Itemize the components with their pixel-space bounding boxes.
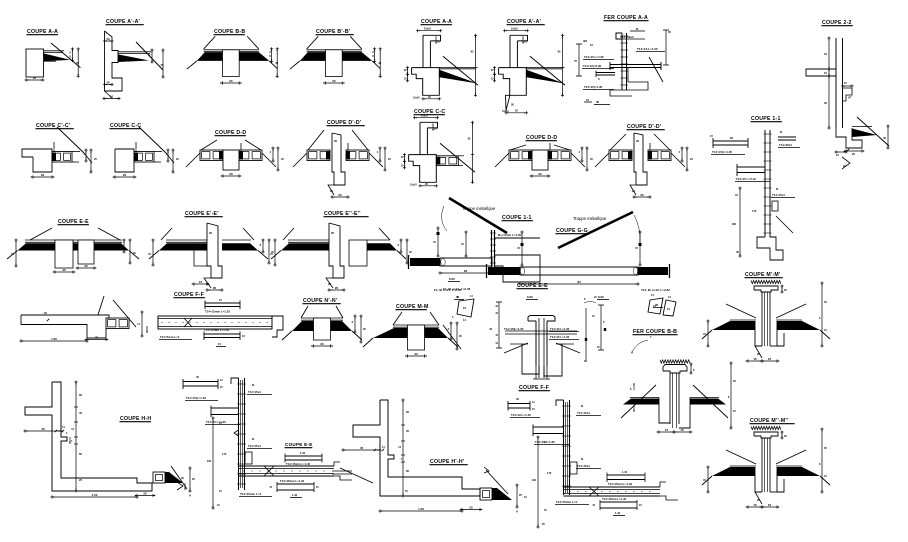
COUPE E'-E' title	[185, 211, 223, 217]
svg-text:R.: R.	[776, 187, 779, 191]
COUPE E'-E' bottom notch	[204, 278, 211, 288]
COUPE D-D funnel diagonals	[201, 140, 217, 150]
trappe1 arc	[442, 206, 447, 231]
COUPE B'-B' right dims	[374, 47, 376, 63]
svg-text:COUPE B-B: COUPE B-B	[214, 29, 245, 35]
svg-text:20: 20	[330, 189, 334, 193]
COUPE B'-B' stem	[326, 50, 343, 77]
svg-text:T14=15x4: T14=15x4	[772, 193, 785, 197]
COUPE D-D outer diagonals	[186, 153, 200, 167]
COUPE C-C bottom dim	[114, 176, 136, 178]
trappe1 diagonal	[449, 198, 507, 233]
svg-text:COUPE A-A: COUPE A-A	[421, 19, 452, 25]
svg-text:T14=12(=2.06: T14=12(=2.06	[583, 64, 602, 68]
svg-text:25: 25	[33, 76, 37, 80]
section detail COUPE M-M (T-section)	[363, 304, 462, 358]
section detail COUPE M'-M' (deep T, right top)	[702, 272, 830, 363]
COUPE E'-E' central column	[207, 223, 222, 278]
section detail COUPE C-C (stepped wall)	[401, 109, 475, 187]
COUPE C-C left dims	[404, 153, 406, 163]
COUPE M'-M' stem below	[755, 321, 762, 346]
COUPE A-A top dim	[416, 30, 442, 32]
F-fer slab right end	[660, 482, 666, 487]
coupe A-A hatch wedge	[44, 53, 71, 61]
flat slab diagonals	[98, 296, 104, 315]
COUPE E''-E'' right stem and hatch	[349, 240, 367, 266]
COUPE D-D hourdis left	[509, 150, 532, 161]
COUPE N'-N' title	[303, 298, 341, 304]
COUPE E'-E' right hatch	[222, 239, 251, 241]
COUPE C'-C' cut diagonal	[57, 127, 84, 153]
COUPE B'-B' bottom dim	[324, 82, 344, 84]
section detail COUPE E-E (ferraillage, center)	[489, 283, 606, 379]
coupe H'-H' right dim	[516, 484, 518, 509]
coupe H-H hourdis block	[153, 472, 165, 483]
coupe H-H key + hatch triangle	[165, 472, 169, 483]
COUPE D-D right dims	[581, 147, 583, 163]
COUPE A-A left dims	[407, 66, 409, 76]
svg-text:COUPE E-E: COUPE E-E	[285, 442, 313, 447]
svg-text:COUPE F-F: COUPE F-F	[174, 292, 204, 298]
COUPE G-G bottom dim	[519, 283, 640, 285]
COUPE C-C bottom dim	[419, 185, 439, 187]
svg-text:3/8: 3/8	[583, 39, 587, 43]
section detail COUPE E''-E''	[270, 211, 412, 292]
svg-text:COUPE M''-M'': COUPE M''-M''	[750, 418, 788, 424]
COUPE A'-A' outline	[510, 35, 528, 41]
COUPE M-M title	[396, 304, 429, 310]
coupe E-E title	[58, 219, 90, 225]
COUPE E''-E'' left outer diagonal	[271, 251, 281, 260]
COUPE M'-M' left dim	[707, 320, 709, 348]
COUPE A'-A' left dims	[494, 66, 496, 76]
coupe 2-2 cut diagonal	[857, 117, 889, 146]
COUPE D-D stirrup mark	[240, 150, 241, 152]
svg-text:6.00: 6.00	[449, 277, 455, 281]
COUPE D'-D' hourdis right	[346, 150, 369, 161]
coupe 2-2 right dim	[887, 125, 889, 150]
COUPE D'-D' funnel diagonals	[308, 130, 324, 150]
COUPE A-A right dim	[475, 34, 477, 97]
section detail FER COUPE B-B (deep T fer)	[621, 329, 736, 434]
L-fer bottom slab	[239, 465, 335, 467]
section detail FER COUPE A-A (reinforcement)	[574, 15, 671, 105]
COUPE A'-A' top dim	[503, 30, 529, 32]
COUPE D-D stirrup mark	[549, 150, 550, 152]
coupe A-A wall outline	[26, 49, 44, 77]
COUPE C-C title	[414, 109, 446, 115]
svg-text:6.00: 6.00	[527, 295, 533, 299]
COUPE D'-D' outer diagonals	[595, 153, 609, 167]
svg-text:COUPE 1-1: COUPE 1-1	[751, 116, 781, 122]
COUPE E'-E' left dims	[152, 239, 154, 267]
coupe 1-1 diagonal	[776, 216, 793, 233]
svg-text:130: 130	[532, 479, 537, 482]
coupe E-E hatch band	[18, 243, 130, 250]
coupe A'-A' cut diagonal	[136, 42, 163, 70]
svg-text:15: 15	[768, 357, 772, 361]
flat slab tick label	[47, 319, 49, 321]
svg-text:T14=12,L=1.46: T14=12,L=1.46	[511, 413, 531, 417]
COUPE C-C cut diagonal	[139, 127, 166, 153]
fer B-B arc arrow	[632, 340, 648, 352]
svg-text:15: 15	[199, 280, 203, 284]
svg-text:45: 45	[406, 429, 409, 433]
F-fer top bar	[508, 403, 530, 405]
section detail COUPE D'-D' (T with hourdis)	[595, 124, 693, 199]
trappe1 floor hatched left	[410, 258, 440, 266]
coupe 1-1 vertical wall	[764, 130, 766, 237]
section detail COUPE F-F ferraillage L (bottom right-center)	[508, 385, 678, 529]
COUPE A-A cut diagonal	[443, 56, 478, 85]
svg-text:F1, M, e=21, L=2.35: F1, M, e=21, L=2.35	[434, 288, 462, 292]
svg-text:170: 170	[222, 452, 227, 456]
COUPE C-C hourdis blocks	[436, 156, 458, 166]
section detail COUPE 2-2 (tall wall, top right)	[806, 20, 890, 169]
L-fer slab right end	[334, 462, 340, 466]
svg-text:T14=15 L=1.35: T14=15 L=1.35	[206, 420, 226, 424]
COUPE C-C stirrup mark	[135, 149, 136, 151]
svg-text:T14=30x4: T14=30x4	[779, 143, 792, 147]
COUPE C'-C' stirrup mark	[53, 149, 54, 151]
COUPE B-B bottom dim	[221, 82, 241, 84]
svg-text:10x10: 10x10	[511, 27, 519, 30]
svg-text:20: 20	[229, 172, 233, 176]
fer B-B slab lines	[630, 397, 659, 399]
svg-text:R.: R.	[252, 437, 255, 441]
svg-text:10x10: 10x10	[502, 110, 509, 113]
F-fer left hook bar	[533, 426, 564, 428]
coupe 1-1 title	[751, 116, 782, 122]
COUPE B'-B' hatch band	[300, 52, 372, 61]
svg-text:COUPE A'-A': COUPE A'-A'	[106, 19, 140, 25]
COUPE D-D hourdis right	[239, 150, 262, 161]
svg-text:20: 20	[335, 286, 339, 290]
F-fer bar above slab	[607, 474, 645, 476]
coupe F-F fer title	[519, 385, 550, 391]
svg-text:COUPE G-G: COUPE G-G	[556, 228, 588, 234]
svg-text:FER COUPE B-B: FER COUPE B-B	[633, 329, 677, 335]
svg-text:60: 60	[79, 452, 82, 456]
svg-text:20: 20	[632, 189, 636, 193]
svg-text:15: 15	[753, 503, 757, 507]
svg-text:25: 25	[79, 478, 82, 482]
section detail COUPE E'-E'	[148, 211, 274, 292]
COUPE M-M stem	[408, 325, 425, 350]
COUPE M'-M' title	[745, 272, 783, 278]
COUPE A'-A' cut diagonal	[530, 56, 565, 85]
COUPE C-C hourdis blocks	[134, 152, 154, 163]
svg-text:18: 18	[824, 52, 827, 56]
svg-text:COUPE 2-2: COUPE 2-2	[822, 20, 852, 26]
svg-text:170: 170	[752, 209, 757, 213]
svg-text:T14=15mm L=1.42: T14=15mm L=1.42	[280, 479, 305, 483]
COUPE M'-M' stem lines	[761, 292, 763, 346]
svg-text:20: 20	[84, 264, 88, 268]
svg-text:30: 30	[824, 101, 827, 105]
COUPE M''-M'' funnel diagonals	[726, 450, 756, 464]
COUPE C-C outline	[115, 149, 134, 172]
COUPE G-G vertical dims	[521, 231, 523, 267]
COUPE D-D hourdis right	[548, 150, 571, 161]
COUPE M''-M'' bottom dims	[747, 506, 764, 508]
svg-text:1.50: 1.50	[51, 337, 57, 341]
svg-text:1.40: 1.40	[292, 493, 298, 497]
COUPE D-D bottom dim	[222, 175, 241, 177]
COUPE A'-A' title	[507, 19, 545, 25]
COUPE C-C title	[110, 123, 142, 129]
svg-text:1.50: 1.50	[92, 493, 98, 497]
svg-text:35: 35	[596, 100, 600, 104]
svg-text:COUPE D-D: COUPE D-D	[215, 130, 246, 136]
COUPE D'-D' bottom notch	[630, 185, 636, 195]
coupe H-H vertical dim	[75, 381, 77, 493]
svg-text:T14=15mm L=4.: T14=15mm L=4.	[240, 492, 262, 496]
svg-text:COUPE H'-H': COUPE H'-H'	[430, 459, 464, 465]
COUPE N'-N' hatch band	[292, 321, 352, 331]
coupe F-F X marks	[184, 318, 192, 327]
coupe F-F right step	[272, 316, 283, 337]
COUPE C'-C' outline	[22, 149, 52, 172]
COUPE M'-M' right dim	[821, 282, 823, 348]
coupe 2-2 left arm	[806, 69, 836, 76]
coupe E-E fer flange	[528, 316, 555, 322]
svg-text:R.: R.	[581, 404, 584, 408]
COUPE D-D title	[526, 135, 558, 141]
coupe A'-A' slab lines	[118, 51, 151, 53]
svg-text:COUPE 1-1: COUPE 1-1	[502, 215, 532, 221]
section detail COUPE M''-M'' (deep T, bottom right)	[702, 418, 830, 509]
COUPE M'-M' funnel diagonals	[726, 304, 756, 318]
section detail COUPE E-E (double stem)	[7, 219, 139, 274]
L-fer bar above slab	[285, 455, 322, 457]
flat slab right dim	[141, 311, 143, 338]
coupe H-H right dim	[189, 467, 191, 493]
COUPE D'-D' title	[627, 124, 665, 130]
svg-text:COUPE H-H: COUPE H-H	[120, 416, 151, 422]
coupe 1-1 foot	[757, 237, 783, 260]
section detail COUPE C-C (L with hourdis)	[110, 123, 180, 179]
coupe H-H outline	[25, 382, 152, 491]
coupe H-H notch arrow	[69, 442, 70, 444]
fer A-A left bracket	[578, 44, 580, 76]
svg-text:T14=15x4: T14=15x4	[248, 444, 261, 448]
section detail COUPE F-F (slab plan with bars)	[158, 292, 283, 347]
svg-text:R.: R.	[252, 383, 255, 387]
coupe H-H inner slab line	[60, 478, 62, 491]
coupe 2-2 left dim	[828, 37, 830, 71]
svg-text:15: 15	[753, 357, 757, 361]
fer B-B bottom dims	[658, 431, 676, 433]
coupe H-H left arm dim	[24, 430, 63, 432]
COUPE M''-M'' flange dim	[781, 431, 783, 440]
svg-text:Trappe métallique: Trappe métallique	[573, 216, 607, 221]
fer A-A step outline	[610, 68, 648, 97]
section detail COUPE 1-1 (mid-right tall rebar)	[710, 116, 800, 260]
coupe 2-2 bottom dims	[835, 151, 848, 153]
COUPE C-C cut diagonal	[440, 143, 475, 172]
COUPE M''-M'' squiggle	[751, 426, 781, 429]
COUPE G-G floor left slab (hatched)	[488, 267, 520, 275]
coupe E-E fer left bracket	[498, 302, 500, 348]
COUPE G-G trappe diagonal	[558, 212, 633, 248]
COUPE M''-M'' flange	[754, 432, 778, 438]
COUPE D-D funnel diagonals	[510, 145, 526, 150]
svg-text:10x10: 10x10	[421, 114, 429, 117]
coupe E-E fer right bracket	[584, 302, 596, 304]
COUPE D'-D' key fills	[628, 151, 632, 160]
svg-text:R.: R.	[780, 130, 783, 134]
COUPE D'-D' key fills	[326, 151, 330, 160]
svg-text:20: 20	[328, 282, 332, 286]
COUPE M''-M'' outer diagonals	[702, 476, 712, 485]
COUPE M''-M'' hatch bands	[712, 467, 755, 476]
COUPE B-B outer diagonals	[187, 61, 197, 69]
svg-text:20: 20	[41, 173, 45, 177]
fer B-B stem bars	[669, 373, 671, 424]
svg-text:COUPE E''-E'': COUPE E''-E''	[324, 211, 361, 217]
svg-text:Trappe métallique: Trappe métallique	[462, 206, 496, 211]
COUPE B'-B' slab lines	[307, 49, 362, 51]
section detail COUPE B'-B'	[290, 29, 382, 85]
svg-text:T14=15,L=1.35: T14=15,L=1.35	[584, 55, 604, 59]
COUPE D'-D' title	[327, 120, 365, 126]
fer B-B left mark	[633, 383, 634, 385]
COUPE A'-A' bottom notch	[506, 95, 511, 110]
svg-text:84: 84	[464, 269, 468, 273]
svg-text:T14=15(L=1.35: T14=15(L=1.35	[712, 150, 732, 154]
svg-text:10x10: 10x10	[410, 183, 417, 186]
COUPE M''-M'' bottom notch	[755, 492, 762, 504]
L-fer notch marks	[234, 430, 239, 436]
COUPE E''-E'' central column	[329, 223, 344, 278]
section detail COUPE 1-1 (trappe, left)	[409, 198, 541, 300]
svg-text:20: 20	[757, 352, 761, 356]
coupe H'-H' key + hatch triangle	[492, 488, 497, 500]
COUPE C'-C' hourdis blocks	[52, 152, 72, 163]
F-fer left dim	[537, 436, 539, 529]
coupe E-E fer slab lines	[510, 343, 528, 345]
COUPE G-G title	[556, 228, 588, 234]
COUPE M''-M'' stem below	[755, 467, 762, 492]
coupe E-E fer mid lines	[505, 330, 577, 332]
COUPE M'-M' flange dim	[781, 285, 783, 294]
fer B-B title	[633, 329, 678, 335]
svg-text:COUPE C-C: COUPE C-C	[110, 123, 141, 129]
COUPE M''-M'' slab lines	[730, 465, 756, 467]
COUPE M''-M'' title	[750, 418, 795, 424]
svg-text:R.: R.	[636, 27, 639, 31]
coupe 1-1 mid slab	[737, 166, 765, 168]
coupe H'-H' bottom dims	[379, 510, 464, 512]
coupe A'-A' top notch dim	[103, 40, 114, 42]
svg-text:T14=15mm L=1.40: T14=15mm L=1.40	[286, 462, 311, 466]
section detail COUPE H-H (large L wall)	[24, 381, 196, 499]
COUPE D-D key fills	[219, 151, 223, 160]
svg-text:10: 10	[110, 95, 114, 99]
fer B-B funnel diagonals	[621, 385, 656, 418]
coupe H'-H' title	[430, 459, 468, 465]
svg-text:T14=15,L=1.35: T14=15,L=1.35	[637, 47, 658, 51]
svg-text:160: 160	[732, 222, 737, 226]
section detail COUPE A-A (stepped wall)	[404, 19, 478, 100]
svg-text:20: 20	[334, 139, 338, 143]
section detail COUPE E-E ferraillage L (center bottom)	[177, 375, 352, 510]
svg-text:T14=15 L=1.35: T14=15 L=1.35	[550, 327, 570, 331]
svg-text:60: 60	[79, 393, 82, 397]
COUPE B-B slab lines	[204, 49, 259, 51]
COUPE D'-D' hourdis left	[307, 150, 330, 161]
svg-text:1.40: 1.40	[615, 511, 621, 515]
svg-text:COUPE D'-D': COUPE D'-D'	[627, 124, 661, 130]
COUPE D-D key fills	[528, 151, 532, 160]
svg-text:20: 20	[320, 342, 324, 346]
section detail COUPE A'-A' (stepped wall)	[491, 19, 565, 114]
COUPE D-D outer diagonals	[495, 153, 509, 167]
coupe F-F bottom bar	[204, 333, 240, 335]
section detail COUPE H'-H' (large L wall 2)	[332, 399, 522, 514]
COUPE A-A hatch wedge	[439, 70, 477, 84]
stirrup trapezoids (near G-G)	[648, 294, 676, 316]
svg-text:20: 20	[511, 102, 515, 106]
svg-text:20: 20	[107, 81, 111, 85]
section detail COUPE D-D (T with hourdis)	[186, 130, 284, 178]
svg-text:15: 15	[586, 98, 590, 102]
coupe A-A bottom dim	[25, 79, 45, 81]
coupe E-E slab lines	[25, 239, 122, 241]
COUPE M''-M'' stem lines	[761, 438, 763, 492]
COUPE N'-N' funnel diagonals	[301, 306, 308, 318]
svg-text:T14=15x4: T14=15x4	[577, 464, 590, 468]
svg-text:45: 45	[79, 411, 82, 415]
L-fer left dim	[212, 417, 214, 510]
COUPE A'-A' right dim	[562, 34, 564, 97]
svg-text:15: 15	[768, 503, 772, 507]
COUPE D-D right dims	[272, 147, 274, 163]
COUPE C-C right dims	[167, 149, 169, 163]
svg-text:15: 15	[463, 306, 466, 310]
COUPE E'-E' left slab lines	[166, 239, 207, 241]
coupe F-F slab	[158, 316, 272, 329]
COUPE M'-M' slab lines	[730, 319, 756, 321]
fer A-A right bracket dim	[665, 30, 667, 65]
svg-text:T14=15 L=1.05: T14=15 L=1.05	[550, 335, 570, 339]
stirrup trapezoid + note (right of M-M)	[434, 288, 474, 322]
section detail COUPE D'-D' (T with hourdis)	[293, 120, 391, 199]
COUPE M-M outer diagonals	[363, 338, 373, 347]
svg-text:20: 20	[123, 173, 127, 177]
svg-text:10x10: 10x10	[424, 27, 432, 30]
COUPE N'-N' bottom dim	[312, 345, 332, 347]
section detail COUPE A'-A'	[103, 19, 165, 100]
svg-text:20: 20	[338, 193, 342, 197]
COUPE M-M right dims	[450, 322, 452, 341]
svg-text:15: 15	[824, 71, 827, 75]
svg-text:20: 20	[62, 268, 66, 272]
F-fer slab X marks	[589, 487, 599, 496]
COUPE E'-E' left outer diagonal	[149, 251, 159, 260]
F-fer bottom slab	[564, 486, 661, 488]
COUPE M'-M' hatch bands	[712, 321, 755, 330]
svg-text:M e=5mm L=1.35: M e=5mm L=1.35	[498, 233, 522, 237]
svg-text:T14=15mm L=1.50: T14=15mm L=1.50	[204, 328, 229, 332]
COUPE B'-B' funnel diagonals	[307, 36, 319, 49]
COUPE D'-D' outer diagonals	[293, 153, 307, 167]
svg-text:20: 20	[636, 139, 640, 143]
COUPE E''-E'' left hatch	[281, 243, 329, 250]
svg-text:COUPE N'-N': COUPE N'-N'	[303, 298, 337, 304]
COUPE D-D stem	[223, 150, 239, 170]
